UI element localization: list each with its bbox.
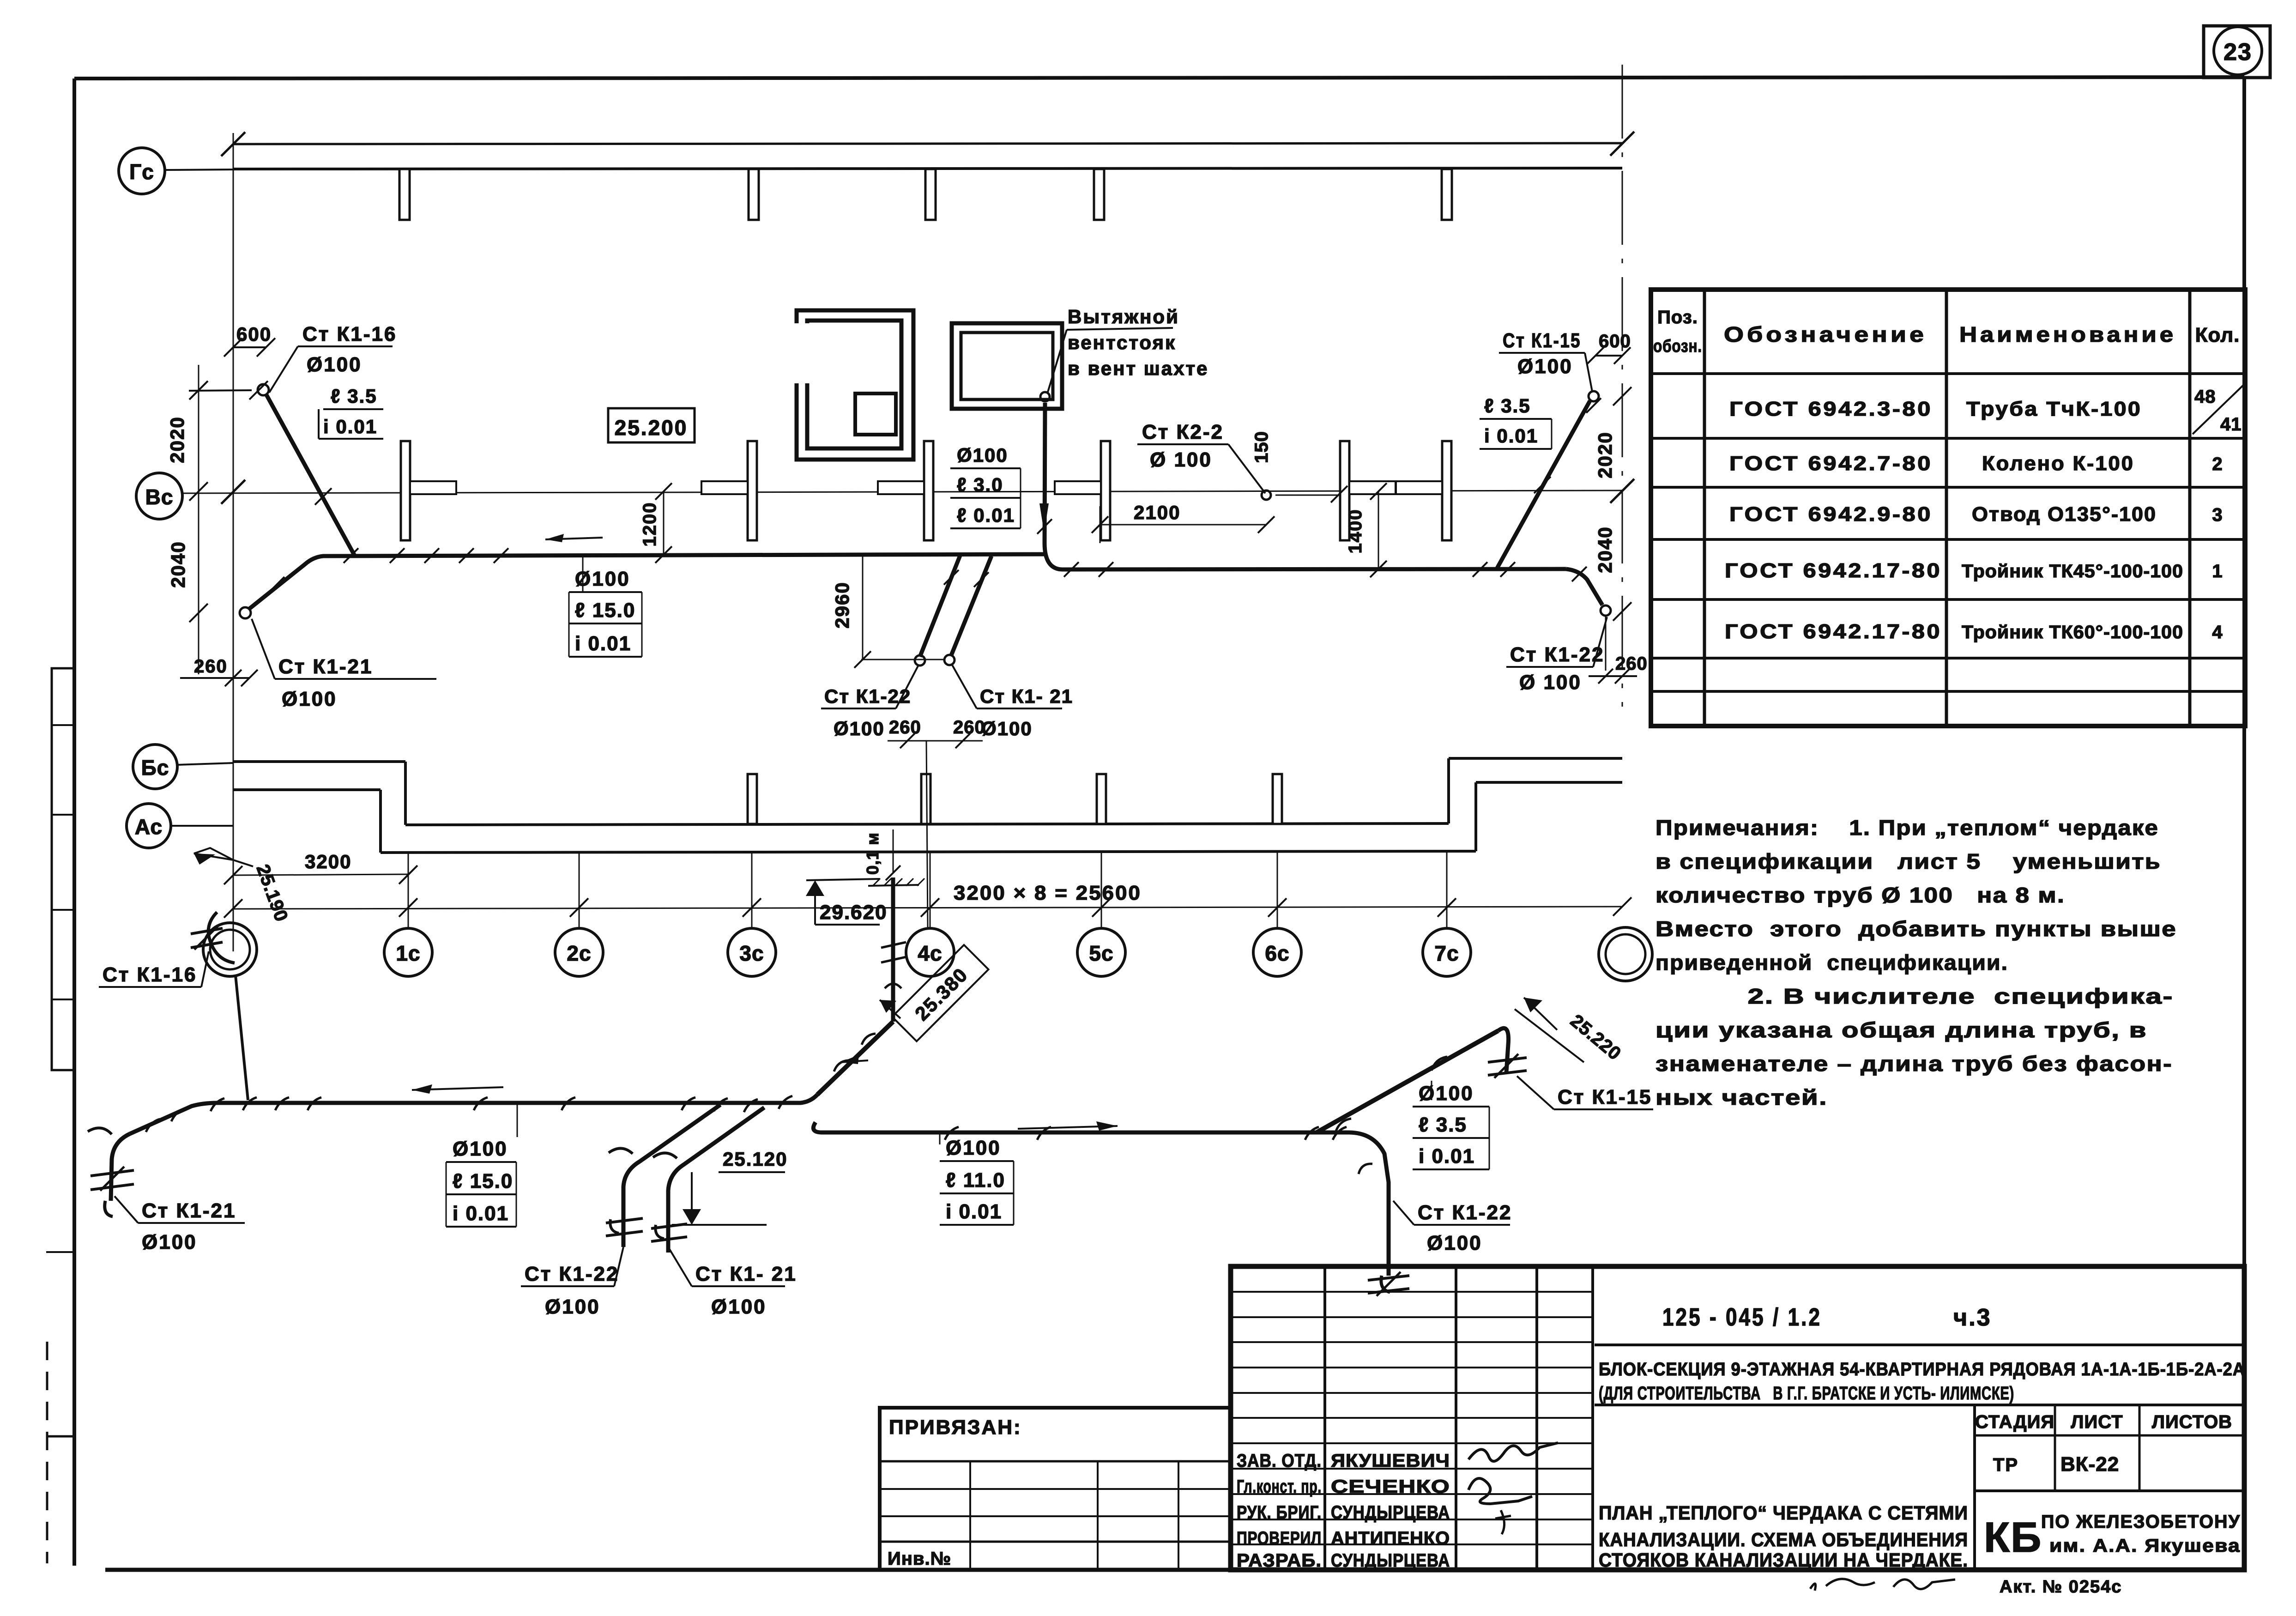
svg-text:ℓ 11.0: ℓ 11.0: [946, 1169, 1005, 1192]
Вс axis wall panels: [401, 441, 410, 540]
svg-text:2040: 2040: [167, 541, 189, 587]
svg-text:в вент шахте: в вент шахте: [1068, 357, 1208, 379]
branch pipes to Ст К1-22 / Ст К1-21 (mid plan): [920, 556, 960, 657]
svg-text:Ø100: Ø100: [1419, 1082, 1474, 1105]
specification table: [1651, 290, 2245, 726]
grid axis bubble Гс: [119, 148, 165, 194]
svg-text:4: 4: [2212, 622, 2223, 642]
scheme: left collector pipe: [130, 1095, 817, 1134]
svg-text:Примечания: 1. При „теплом“: Примечания: 1. При „теплом“ чердаке: [1656, 816, 2159, 840]
svg-text:i 0.01: i 0.01: [1419, 1145, 1475, 1168]
drop from outfall to collector: [236, 975, 248, 1100]
svg-text:ГОСТ 6942.17-80: ГОСТ 6942.17-80: [1725, 620, 1942, 643]
vent room walls: [797, 310, 913, 460]
svg-text:КБ: КБ: [1984, 1514, 2042, 1561]
pipe data box Ф100 l15.0 i0.01 (scheme left): [517, 1104, 518, 1137]
svg-text:РАЗРАБ.: РАЗРАБ.: [1237, 1550, 1322, 1571]
svg-text:Вместо этого добавить пункт: Вместо этого добавить пункты выше: [1656, 917, 2177, 941]
svg-text:i 0.01: i 0.01: [453, 1202, 509, 1225]
scheme: right collector pipe: [813, 1122, 1389, 1276]
stamp doc number 125-045/1.2 ч.3: [1595, 1344, 2244, 1346]
handwriting below stamp: [1810, 1579, 1875, 1591]
svg-text:СЕЧЕНКО: СЕЧЕНКО: [1331, 1477, 1450, 1497]
svg-text:1: 1: [2212, 561, 2223, 581]
dim 1200 vertical: [663, 491, 665, 555]
svg-text:АНТИПЕНКО: АНТИПЕНКО: [1331, 1528, 1450, 1549]
stamp left grid verticals: [1323, 1266, 1326, 1570]
svg-text:4с: 4с: [918, 941, 942, 965]
boxed elevation 25.200: [608, 408, 695, 442]
left margin dashed line: [46, 1342, 48, 1563]
svg-text:Ø 100: Ø 100: [1519, 671, 1582, 694]
riser break marks: [885, 984, 901, 988]
svg-text:Ø100: Ø100: [946, 1137, 1001, 1159]
svg-text:6с: 6с: [1265, 941, 1289, 965]
svg-text:Ст К1- 21: Ст К1- 21: [980, 685, 1073, 707]
vent room inner duct square: [855, 393, 896, 435]
svg-text:вентстояк: вентстояк: [1068, 332, 1176, 353]
svg-text:Ст К1-21: Ст К1-21: [142, 1199, 236, 1222]
svg-text:ЯКУШЕВИЧ: ЯКУШЕВИЧ: [1331, 1451, 1450, 1471]
stamp object caption: [1595, 1404, 2244, 1406]
svg-text:СУНДЫРЦЕВА: СУНДЫРЦЕВА: [1331, 1550, 1450, 1571]
svg-text:i 0.01: i 0.01: [1484, 425, 1538, 447]
left extension line of plan: [233, 133, 234, 951]
stack Ст К1-21 corner circle (plan left): [240, 607, 251, 618]
svg-text:2. В числителе специфика-: 2. В числителе специфика-: [1656, 984, 2174, 1008]
svg-text:Ø100: Ø100: [957, 444, 1008, 466]
svg-text:3200: 3200: [305, 851, 351, 872]
svg-text:48: 48: [2194, 387, 2216, 407]
svg-text:ℓ 15.0: ℓ 15.0: [453, 1170, 513, 1192]
svg-text:2020: 2020: [166, 416, 188, 463]
sheet frame border: [74, 77, 2244, 79]
svg-text:СУНДЫРЦЕВА: СУНДЫРЦЕВА: [1331, 1502, 1450, 1523]
svg-text:ГОСТ 6942.7-80: ГОСТ 6942.7-80: [1729, 452, 1933, 475]
flow arrow left collector: [412, 1087, 503, 1090]
svg-text:ПО ЖЕЛЕЗОБЕТОНУ: ПО ЖЕЛЕЗОБЕТОНУ: [2041, 1512, 2241, 1532]
wire: Гс axis connector: [165, 169, 233, 170]
4с schematic riser vertical: [891, 878, 895, 1022]
svg-text:Ст К2-2: Ст К2-2: [1142, 421, 1224, 443]
svg-text:Ø100: Ø100: [981, 718, 1033, 739]
signatures squiggles: [1468, 1443, 1558, 1461]
svg-text:ℓ 3.0: ℓ 3.0: [957, 474, 1003, 496]
svg-text:Тройник ТК60°-100-100: Тройник ТК60°-100-100: [1962, 622, 2183, 642]
svg-text:количество труб Ø 100 на 8: количество труб Ø 100 на 8 м.: [1656, 883, 2065, 907]
right sewer outfall double circle: [1599, 927, 1652, 981]
svg-text:ВК-22: ВК-22: [2060, 1453, 2119, 1476]
bottom wall panel teeth: [748, 774, 757, 824]
svg-text:ТР: ТР: [1993, 1455, 2018, 1475]
svg-text:ГОСТ 6942.3-80: ГОСТ 6942.3-80: [1729, 398, 1933, 420]
left sewer outfall double circle: [203, 923, 257, 976]
svg-text:ЛИСТОВ: ЛИСТОВ: [2152, 1412, 2232, 1432]
elevation 25.380 rotated box: [892, 945, 989, 1041]
pipe: Ст К1-16 branch: [266, 395, 355, 556]
svg-text:Обозначение: Обозначение: [1724, 322, 1927, 346]
svg-text:СТОЯКОВ КАНАЛИЗАЦИИ НА ЧЕРДАКЕ: СТОЯКОВ КАНАЛИЗАЦИИ НА ЧЕРДАКЕ.: [1599, 1549, 1968, 1571]
svg-text:Ст К1-22: Ст К1-22: [1418, 1201, 1512, 1224]
svg-text:2: 2: [2212, 454, 2223, 474]
svg-text:ГОСТ 6942.9-80: ГОСТ 6942.9-80: [1729, 503, 1933, 526]
scheme: diagonal to Ст К1-15: [1317, 1031, 1498, 1132]
axis bubble 2с: [555, 928, 603, 976]
svg-text:приведенной спецификации.: приведенной спецификации.: [1656, 950, 2008, 974]
svg-text:Кол.: Кол.: [2195, 324, 2240, 346]
vent riser circle in shaft: [1040, 392, 1050, 401]
svg-text:2960: 2960: [831, 581, 853, 628]
dim 1400 vertical right: [1378, 491, 1379, 569]
svg-text:ПРОВЕРИЛ: ПРОВЕРИЛ: [1237, 1528, 1322, 1549]
svg-text:0,1 м: 0,1 м: [863, 832, 882, 875]
svg-text:Отвод О135°-100: Отвод О135°-100: [1972, 503, 2157, 526]
vent stack vertical pipe down to collector: [1045, 403, 1566, 569]
svg-text:Ø100: Ø100: [834, 718, 885, 739]
svg-text:3200 × 8 = 25600: 3200 × 8 = 25600: [954, 882, 1142, 904]
axis bubble 3с: [728, 928, 776, 976]
pipe: main collector left run: [249, 554, 1045, 609]
svg-text:РУК. БРИГ.: РУК. БРИГ.: [1237, 1502, 1322, 1523]
pipe: right end bend to Ст К1-22: [1566, 569, 1602, 605]
stamp left grid horizontals: [1231, 1291, 1593, 1293]
svg-text:Ø100: Ø100: [1517, 355, 1573, 378]
svg-text:i 0.01: i 0.01: [575, 632, 631, 655]
svg-text:Поз.: Поз.: [1657, 307, 1698, 327]
svg-text:Ø100: Ø100: [1427, 1232, 1482, 1254]
svg-text:им. А.А. Якушева: им. А.А. Якушева: [2049, 1536, 2241, 1556]
svg-text:Ø100: Ø100: [282, 688, 337, 710]
right extension line of plan: [1622, 65, 1623, 707]
svg-text:3с: 3с: [739, 941, 764, 965]
stadia list block: [1973, 1405, 1976, 1570]
axis bubble 7с: [1423, 928, 1471, 976]
svg-text:КАНАЛИЗАЦИИ. СХЕМА ОБЪЕДИНЕНИЯ: КАНАЛИЗАЦИИ. СХЕМА ОБЪЕДИНЕНИЯ: [1599, 1529, 1968, 1550]
pipe data box Ф100 l3.5 i0.01 (scheme right): [1431, 1081, 1432, 1100]
top wall of attic plan (double line): [233, 143, 1622, 144]
sheet number box 23: [2204, 26, 2270, 78]
dim 600 top left: [233, 346, 266, 348]
svg-text:260: 260: [889, 717, 921, 738]
svg-text:ГОСТ 6942.17-80: ГОСТ 6942.17-80: [1725, 559, 1942, 582]
svg-text:2040: 2040: [1594, 526, 1616, 573]
axis 4с thin line down: [926, 741, 928, 927]
svg-text:Ст К1-16: Ст К1-16: [103, 963, 197, 986]
svg-text:ℓ 0.01: ℓ 0.01: [957, 504, 1015, 526]
svg-text:Гл.конст. пр.: Гл.конст. пр.: [1237, 1477, 1322, 1497]
scheme: left end drop to Ст К1-21: [111, 1134, 130, 1201]
svg-text:Наименование: Наименование: [1959, 322, 2176, 346]
svg-text:Ст К1-16: Ст К1-16: [302, 323, 397, 345]
svg-text:Ст К1- 21: Ст К1- 21: [695, 1263, 797, 1285]
svg-text:1200: 1200: [640, 502, 660, 547]
Ст К2-2 riser circle: [1262, 490, 1271, 500]
svg-text:Ø100: Ø100: [453, 1138, 508, 1160]
svg-text:7с: 7с: [1434, 941, 1459, 965]
wire: Вс axis line: [182, 490, 1622, 493]
top wall panel teeth: [399, 169, 410, 220]
svg-text:Ас: Ас: [135, 815, 163, 839]
svg-text:Инв.№: Инв.№: [888, 1549, 951, 1569]
svg-text:2с: 2с: [567, 941, 591, 965]
svg-text:260: 260: [1615, 654, 1648, 674]
scheme: branch diagonals to mid risers: [623, 1105, 720, 1247]
привязан block: [880, 1408, 1231, 1570]
svg-text:БЛОК-СЕКЦИЯ 9-ЭТАЖНАЯ 54-КВАРТ: БЛОК-СЕКЦИЯ 9-ЭТАЖНАЯ 54-КВАРТИРНАЯ РЯДО…: [1599, 1359, 2245, 1380]
svg-text:ПРИВЯЗАН:: ПРИВЯЗАН:: [889, 1416, 1022, 1439]
svg-text:Ø 100: Ø 100: [1150, 448, 1212, 471]
svg-text:Ø100: Ø100: [142, 1231, 197, 1253]
svg-text:ных частей.: ных частей.: [1656, 1085, 1828, 1109]
socket ticks on left pipe: [146, 1119, 160, 1132]
svg-text:ℓ 3.5: ℓ 3.5: [1419, 1114, 1467, 1136]
svg-text:ЗАВ. ОТД.: ЗАВ. ОТД.: [1237, 1451, 1322, 1471]
svg-text:Ø100: Ø100: [545, 1295, 600, 1318]
ground hatch at 4с riser top: [868, 885, 919, 886]
svg-text:2020: 2020: [1594, 431, 1616, 478]
svg-text:150: 150: [1251, 431, 1272, 463]
right dims 2020 2040 260: [1613, 387, 1631, 406]
socket ticks on right pipe: [945, 1127, 959, 1140]
axis bubble 4с: [906, 928, 954, 976]
svg-text:3: 3: [2212, 505, 2223, 525]
axis bubble 5с: [1077, 928, 1125, 976]
svg-text:ℓ 3.5: ℓ 3.5: [1484, 395, 1531, 417]
flow arrow on left pipe: [545, 538, 603, 539]
svg-text:Ст К1-15: Ст К1-15: [1503, 329, 1581, 352]
svg-text:ℓ 3.5: ℓ 3.5: [331, 385, 377, 407]
axes dimension line 3200x8=25600: [233, 907, 1622, 909]
svg-text:Ст К1-22: Ст К1-22: [1510, 643, 1604, 666]
svg-text:Ø100: Ø100: [307, 353, 362, 376]
svg-text:ции указана общая длина тр: ции указана общая длина труб, в: [1656, 1018, 2147, 1042]
svg-text:23: 23: [2223, 39, 2252, 66]
vent shaft box: [952, 323, 1062, 409]
svg-text:5с: 5с: [1089, 941, 1113, 965]
svg-text:Ст К1-21: Ст К1-21: [278, 655, 373, 678]
grid axis bubble Бс: [133, 744, 177, 789]
svg-text:СТАДИЯ: СТАДИЯ: [1975, 1412, 2054, 1432]
svg-text:i 0.01: i 0.01: [946, 1200, 1002, 1223]
svg-text:25.120: 25.120: [723, 1148, 787, 1170]
svg-text:260: 260: [194, 656, 228, 677]
svg-text:обозн.: обозн.: [1653, 337, 1702, 356]
pipe data box Ф100 l11.0 i0.01 (scheme mid): [939, 1134, 941, 1144]
svg-text:1400: 1400: [1345, 509, 1366, 554]
axis bubble 6с: [1253, 928, 1301, 976]
svg-text:600: 600: [236, 323, 272, 345]
svg-text:Бс: Бс: [141, 756, 169, 780]
svg-text:Акт. № 0254с: Акт. № 0254с: [2000, 1577, 2122, 1597]
svg-text:ч.3: ч.3: [1953, 1304, 1992, 1331]
left vertical dim line with 2020 / 2040 / 260: [198, 365, 199, 674]
svg-text:1с: 1с: [396, 941, 420, 965]
svg-text:2100: 2100: [1134, 502, 1180, 523]
axes dimension line 3200: [233, 874, 408, 875]
dim 2960 vertical: [862, 557, 864, 660]
svg-text:(ДЛЯ СТРОИТЕЛЬСТВА В Г.Г. БР: (ДЛЯ СТРОИТЕЛЬСТВА В Г.Г. БРАТСКЕ И УСТЬ…: [1599, 1383, 2014, 1404]
svg-text:25.200: 25.200: [615, 416, 688, 440]
riser symbol over left outfall: [191, 928, 223, 934]
stack Ст К1-16 start circle: [258, 384, 269, 395]
svg-text:ЛИСТ: ЛИСТ: [2071, 1412, 2123, 1432]
svg-text:в спецификации лист 5 уме: в спецификации лист 5 уменьшить: [1656, 849, 2161, 873]
scheme: rising diagonal to 4с riser: [817, 1022, 893, 1095]
grid axis bubble Ас: [127, 804, 171, 848]
svg-text:Тройник ТК45°-100-100: Тройник ТК45°-100-100: [1962, 561, 2183, 581]
svg-text:знаменателе – длина труб без: знаменателе – длина труб без фасон-: [1656, 1052, 2173, 1076]
axis bubble 1с: [384, 928, 432, 976]
svg-text:29.620: 29.620: [820, 901, 888, 924]
svg-text:125 - 045 / 1.2: 125 - 045 / 1.2: [1662, 1303, 1822, 1331]
svg-text:Колено К-100: Колено К-100: [1982, 452, 2134, 475]
svg-text:Ø100: Ø100: [711, 1295, 767, 1318]
left margin inventory strip: [52, 668, 74, 1070]
svg-text:Труба ТчК-100: Труба ТчК-100: [1966, 398, 2142, 420]
svg-text:Ст К1-15: Ст К1-15: [1558, 1086, 1652, 1108]
svg-text:i 0.01: i 0.01: [323, 416, 377, 437]
svg-text:41: 41: [2220, 414, 2242, 435]
stack Ст К1-15 start circle and branch: [1589, 391, 1599, 401]
grid axis bubble Вс: [136, 473, 182, 519]
svg-text:ℓ 15.0: ℓ 15.0: [575, 599, 635, 622]
svg-text:Ст К1-22: Ст К1-22: [525, 1263, 619, 1285]
bottom wall with steps (double line): [233, 760, 405, 763]
svg-text:Вытяжной: Вытяжной: [1068, 306, 1179, 327]
svg-text:Вс: Вс: [145, 485, 174, 509]
flow arrow right collector: [1018, 1126, 1118, 1129]
svg-text:ПЛАН „ТЕПЛОГО“ ЧЕРДАКА С СЕТЯМ: ПЛАН „ТЕПЛОГО“ ЧЕРДАКА С СЕТЯМИ: [1599, 1502, 1968, 1524]
title block stamp outer: [1231, 1266, 2244, 1570]
svg-text:Гс: Гс: [129, 160, 154, 184]
